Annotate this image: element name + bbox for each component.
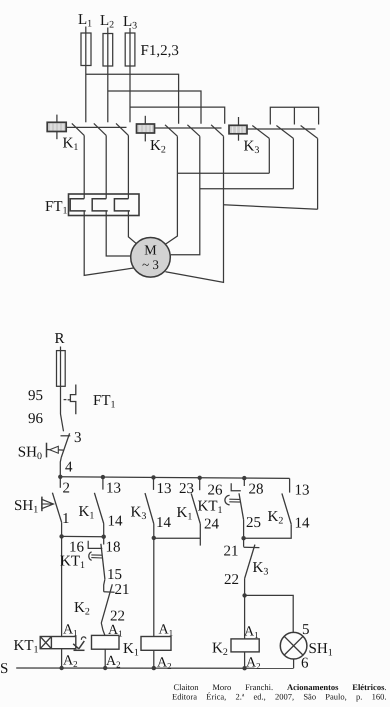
svg-text:SH1: SH1	[309, 641, 333, 659]
contact K2 NC 21-22	[101, 584, 114, 635]
node S bus K1 coil	[152, 666, 156, 670]
node S bus K3 coil	[103, 666, 107, 670]
wire H1 K2 contact1 to K3 contact1	[177, 172, 269, 174]
label 15	[107, 567, 122, 583]
svg-text:25: 25	[246, 515, 261, 531]
timed contact KT1 25-26-28	[225, 478, 244, 538]
label 13 (K3 aux)	[157, 481, 172, 497]
label 21 (K2 NC)	[115, 582, 130, 598]
svg-text:KT1: KT1	[14, 638, 39, 656]
thermal overload FT1 power element	[69, 194, 140, 216]
wire H3 K2 contact3 to K3 contact3	[224, 205, 318, 210]
wire H2 K2 contact2 to K3 contact2	[200, 188, 294, 190]
node bus-K1 13	[101, 475, 105, 479]
phase label L3	[123, 14, 137, 32]
label SH1 (button)	[14, 498, 38, 516]
label 21 (K3 NC)	[224, 544, 239, 560]
svg-text:A1: A1	[63, 623, 78, 639]
svg-text:L2: L2	[100, 13, 114, 31]
label K3	[244, 139, 260, 157]
K3 star-point bridge	[270, 107, 318, 124]
svg-text:S: S	[0, 661, 8, 677]
label K2	[150, 138, 166, 156]
wire K2 contact 1 to motor terminal	[164, 136, 178, 245]
coil K1 line	[141, 637, 171, 651]
fuse F2	[103, 34, 113, 67]
label 4	[65, 460, 73, 476]
label FT1 (control)	[93, 393, 116, 411]
contact K2 13-14	[244, 478, 292, 538]
wire feed L2 to K2 contact 2	[108, 91, 201, 124]
node junction lamp tap	[242, 593, 246, 597]
node junction KT1-25 bottom	[241, 536, 245, 540]
label 22 (K3 NC)	[224, 572, 239, 588]
fuse F3	[125, 33, 135, 66]
label K1 (coil)	[123, 641, 139, 659]
label A1 (K2 coil)	[244, 625, 259, 641]
contactor K3 actuator box	[229, 117, 247, 141]
wire K1 contact 2 to FT1	[105, 135, 107, 198]
motor M 3-phase	[131, 237, 171, 277]
label 23	[179, 481, 194, 497]
label 14 (K3 aux)	[156, 515, 172, 531]
wire feed L3 to K2 contact 3	[130, 107, 225, 124]
svg-text:14: 14	[156, 515, 172, 531]
svg-text:KT1: KT1	[60, 554, 85, 572]
svg-text:Editora Érica, 2.ª ed., 2007,: Editora Érica, 2.ª ed., 2007, São Paulo,…	[172, 692, 386, 702]
wire FT1 out 2 to motor	[106, 211, 130, 256]
svg-text:L1: L1	[78, 12, 92, 30]
svg-text:R: R	[55, 331, 65, 347]
label 28	[249, 482, 264, 498]
wire node to KT1 coil	[61, 536, 63, 636]
label KT1 (25-26-28)	[198, 499, 223, 517]
label K1	[63, 136, 79, 154]
contact K1 13-14	[94, 477, 103, 537]
node bus-SH1	[58, 475, 62, 479]
K2 mechanical linkage	[155, 127, 222, 129]
label K1 (seal contact)	[79, 504, 95, 522]
label K3 (aux contact)	[131, 505, 147, 523]
svg-text:K3: K3	[253, 560, 269, 578]
K3 power contact 1	[252, 126, 269, 139]
node junction K3-14 bottom	[152, 536, 156, 540]
indicator lamp SH1	[280, 632, 307, 659]
label 95	[28, 388, 43, 404]
svg-text:13: 13	[106, 481, 121, 497]
K1 mechanical linkage	[66, 126, 126, 128]
K3 mechanical linkage	[247, 128, 316, 130]
wire FT1 out 1 to motor	[84, 211, 135, 276]
K3 power contact 2	[276, 126, 293, 139]
coil KT1 timer	[40, 637, 76, 649]
label 22 (K2 NC)	[110, 609, 125, 625]
wire fuse to SH0	[61, 386, 64, 431]
label 24	[204, 517, 220, 533]
svg-text:KT1: KT1	[198, 499, 223, 517]
wire L1 phase down to K1 contact 1	[85, 27, 87, 123]
label A1 (K3 coil)	[108, 623, 123, 639]
label 16	[69, 540, 85, 556]
svg-text:95: 95	[28, 388, 43, 404]
wire KT1-15 to K2 NC	[104, 579, 105, 592]
label A2 (K2 coil)	[246, 656, 261, 672]
svg-text:14: 14	[108, 514, 124, 530]
K2 power contact 3	[211, 125, 223, 136]
wire KT1 coil to S bus	[61, 649, 63, 668]
svg-text:K1: K1	[79, 504, 95, 522]
svg-text:K1: K1	[123, 641, 139, 659]
wire K1 contact 1 to FT1	[83, 135, 85, 198]
svg-text:14: 14	[295, 516, 311, 532]
node bus-K3 13	[151, 475, 155, 479]
svg-text:3: 3	[74, 430, 82, 446]
svg-text:K1: K1	[177, 505, 193, 523]
svg-text:K1: K1	[63, 136, 79, 154]
svg-text:4: 4	[65, 460, 73, 476]
wire K3 contact 2 to junction H2	[292, 138, 294, 188]
wire L3 phase down to K1 contact 3	[129, 28, 131, 122]
svg-text:26: 26	[208, 483, 224, 499]
label S	[0, 661, 8, 677]
svg-text:21: 21	[224, 544, 239, 560]
contact K3 NC 21-22	[244, 538, 260, 595]
svg-text:96: 96	[28, 411, 44, 427]
wire FT1 out 3 to motor	[128, 211, 136, 244]
wire lamp tap	[245, 595, 294, 632]
svg-text:SH1: SH1	[14, 498, 38, 516]
node bus-KT1 28	[242, 476, 246, 480]
phase label L2	[100, 13, 114, 31]
label FT1 (power)	[45, 199, 68, 217]
label 1	[62, 511, 70, 527]
pushbutton SH0 NC contact	[47, 433, 71, 476]
K2 power contact 1	[165, 125, 177, 136]
wire to K2 coil	[244, 595, 246, 639]
label 18	[106, 540, 121, 556]
label SH1 (lamp)	[309, 641, 333, 659]
svg-text:18: 18	[106, 540, 121, 556]
svg-text:1: 1	[62, 511, 70, 527]
node bus-K1 23	[198, 476, 202, 480]
footer citation	[172, 682, 387, 702]
svg-text:13: 13	[295, 483, 310, 499]
label 2	[63, 481, 71, 497]
svg-text:A1: A1	[159, 623, 174, 639]
label 26	[208, 483, 224, 499]
wire junction row K3-14/K1-24	[154, 537, 201, 539]
label F1,2,3	[141, 43, 179, 59]
label K2 (NC contact)	[74, 600, 90, 618]
wire K3 coil to S bus	[104, 649, 106, 668]
K1 power contact 3	[116, 123, 128, 135]
label K3 (NC contact)	[253, 560, 269, 578]
label 13 (K1 seal)	[106, 481, 121, 497]
label 14 (K1 seal)	[108, 514, 124, 530]
label K1 (23-24)	[177, 505, 193, 523]
K2 power contact 2	[187, 125, 199, 136]
phase label R	[55, 331, 65, 347]
svg-text:FT1: FT1	[93, 393, 116, 411]
node S bus K2 coil	[242, 666, 246, 670]
K3 power contact 3	[301, 126, 318, 139]
coil K2 delta	[231, 639, 259, 652]
label A1 (KT1 coil)	[63, 623, 78, 639]
node junction SH1 bottom	[59, 534, 63, 538]
wire K3 contact 1 to junction H1	[268, 138, 270, 173]
K1 power contact 2	[94, 123, 106, 135]
wire K2 contact 3 to motor terminal	[166, 136, 224, 282]
label 14 (K2 aux)	[295, 516, 311, 532]
wire R to control fuse	[60, 347, 62, 351]
wire L2 phase down to K1 contact 2	[107, 28, 109, 123]
phase label L1	[78, 12, 92, 30]
FT1 NC contact 95-96	[64, 385, 76, 415]
pushbutton SH1 NO contact 1-2	[42, 477, 62, 537]
wire junction row SH1/K1-14	[62, 535, 104, 537]
svg-text:2: 2	[63, 481, 71, 497]
wire K1 contact 3 to FT1	[127, 135, 129, 198]
svg-text:22: 22	[224, 572, 239, 588]
label KT1 (15-16-18)	[60, 554, 85, 572]
svg-text:K2: K2	[74, 600, 90, 618]
K1 power contact 1	[72, 123, 84, 135]
label 3	[74, 430, 82, 446]
label 25	[246, 515, 261, 531]
svg-text:K3: K3	[131, 505, 147, 523]
svg-text:Claiton Moro Franchi. Acioname: Claiton Moro Franchi. Acionamentos Elétr…	[174, 682, 387, 692]
label K2 (aux contact)	[268, 509, 284, 527]
svg-text:K3: K3	[244, 139, 260, 157]
contact K1 23-24	[191, 478, 200, 546]
node S bus KT1	[59, 666, 63, 670]
svg-text:K2: K2	[212, 641, 228, 659]
svg-text:F1,2,3: F1,2,3	[141, 43, 179, 59]
svg-text:A2: A2	[63, 654, 78, 670]
wire K2 contact 2 to motor terminal	[171, 136, 200, 255]
label 13 (K2 aux)	[295, 483, 310, 499]
svg-text:SH0: SH0	[18, 445, 42, 463]
wire feed L1 to K2 contact 1	[86, 74, 179, 124]
label A1 (K1 coil)	[159, 623, 174, 639]
svg-text:K2: K2	[268, 509, 284, 527]
svg-text:6: 6	[301, 656, 309, 672]
svg-text:K2: K2	[150, 138, 166, 156]
label SH0	[18, 445, 42, 463]
svg-text:15: 15	[107, 567, 122, 583]
label 96	[28, 411, 44, 427]
wire K3 contact 3 to junction H3	[317, 138, 319, 209]
svg-text:21: 21	[115, 582, 130, 598]
svg-text:~ 3: ~ 3	[142, 257, 159, 272]
label A2 (K3 coil)	[106, 654, 121, 670]
svg-text:FT1: FT1	[45, 199, 68, 217]
coil K3 star	[92, 635, 120, 649]
contactor K1 actuator box	[47, 115, 66, 140]
label 5	[302, 622, 310, 638]
node junction K1-14 bottom	[102, 535, 106, 539]
svg-text:A1: A1	[244, 625, 259, 641]
control bus top	[60, 477, 289, 479]
svg-text:13: 13	[157, 481, 172, 497]
label A2 (KT1 coil)	[63, 654, 78, 670]
wire lamp to S bus	[293, 659, 295, 668]
annotation mark between coils	[73, 637, 86, 650]
label A2 (K1 coil)	[157, 656, 172, 672]
fuse F1	[81, 33, 91, 66]
svg-text:A2: A2	[106, 654, 121, 670]
wire K2 coil to S bus	[244, 652, 246, 668]
S bus	[16, 667, 293, 669]
contactor K2 actuator box	[137, 116, 155, 142]
contact K3 13-14	[145, 477, 154, 537]
control fuse	[57, 351, 66, 387]
svg-text:24: 24	[204, 517, 220, 533]
wire K1 coil to S bus	[153, 650, 155, 668]
label 6	[301, 656, 309, 672]
wire node to K1 line coil	[153, 538, 155, 637]
svg-text:28: 28	[249, 482, 264, 498]
label K2 (coil)	[212, 641, 228, 659]
svg-text:A1: A1	[108, 623, 123, 639]
timed contact KT1 15-16-18	[88, 537, 105, 580]
label KT1 (coil)	[14, 638, 39, 656]
